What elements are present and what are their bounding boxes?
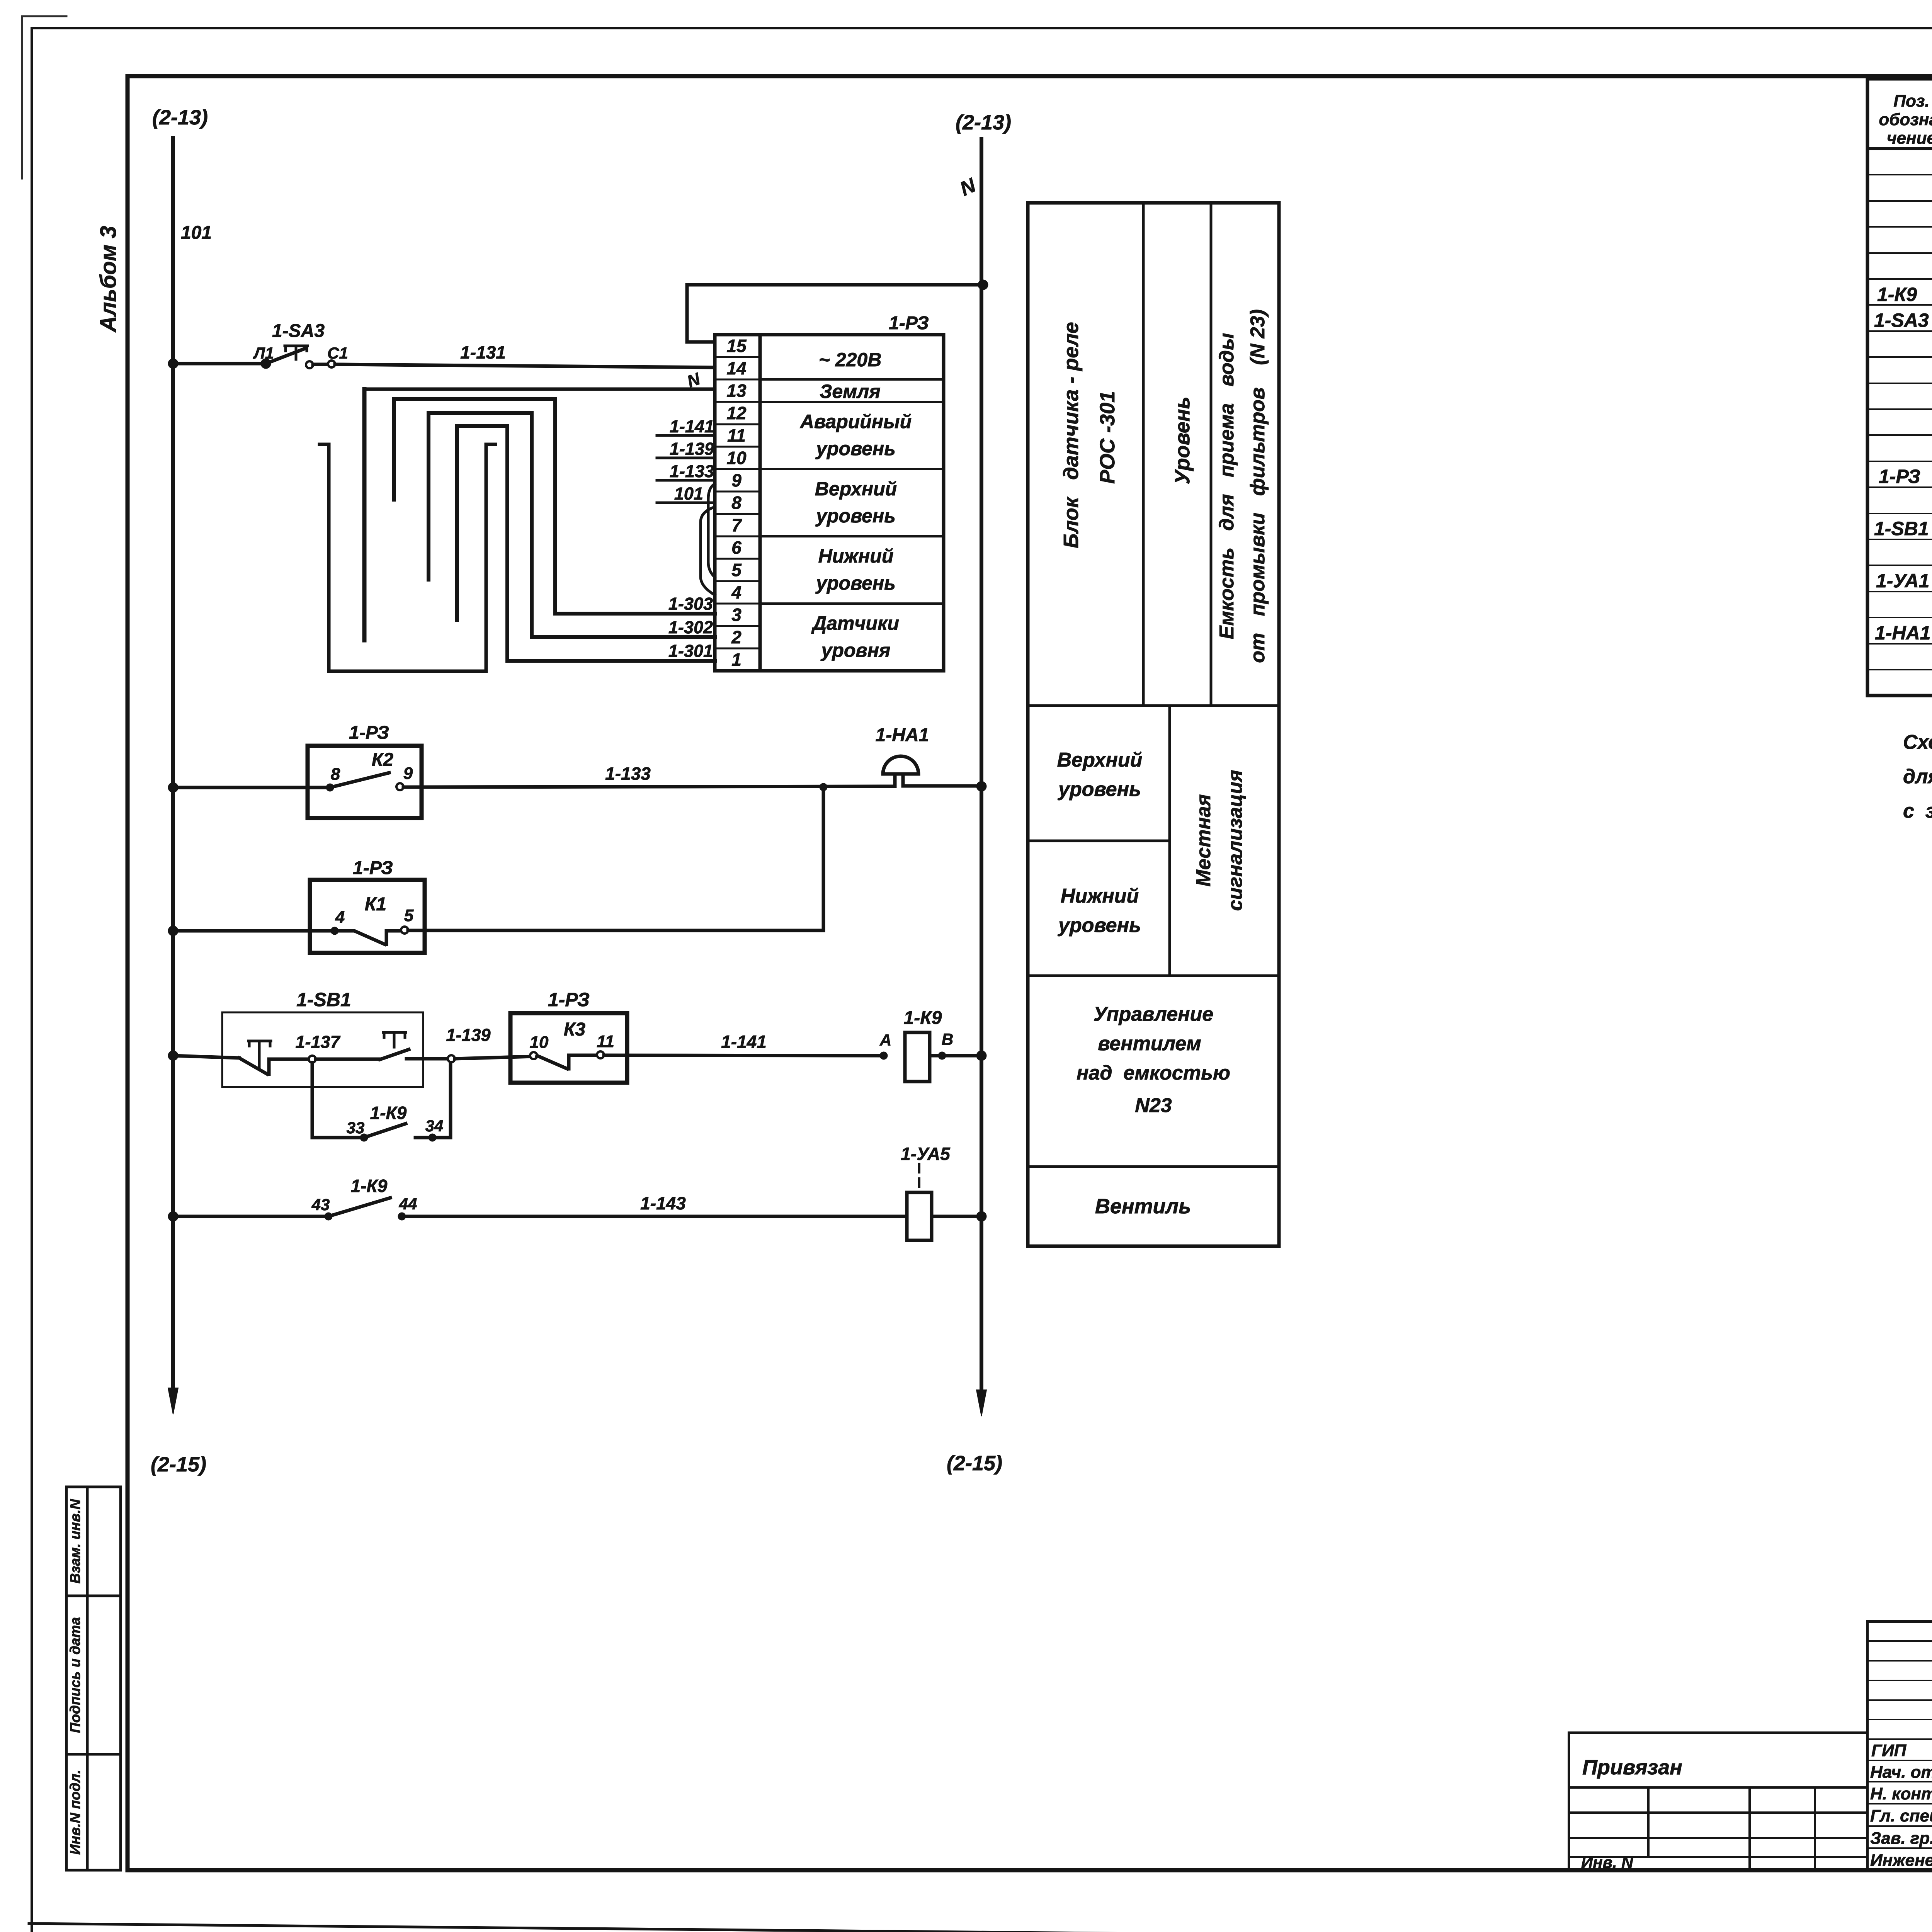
junction dot bell rung on bus N	[976, 781, 986, 791]
wire bus to K1 box	[173, 929, 335, 933]
svg-text:10: 10	[726, 448, 747, 468]
coil 1-УА5	[907, 1192, 932, 1240]
svg-text:1-НА1: 1-НА1	[876, 725, 929, 745]
svg-text:уровень: уровень	[1057, 914, 1141, 937]
contact K1 blade	[335, 931, 402, 944]
switch 1-SA3 terminal Л1	[261, 359, 271, 369]
wire 1-141 K3 to coil K9	[604, 1055, 884, 1056]
bypass wire up to 1-139	[415, 1063, 451, 1138]
svg-text:С1: С1	[327, 344, 348, 362]
parts list row lines	[1867, 175, 1932, 670]
svg-text:34: 34	[425, 1117, 444, 1135]
svg-text:Поз.: Поз.	[1893, 92, 1929, 111]
svg-text:44: 44	[399, 1195, 417, 1213]
svg-text:13: 13	[726, 381, 747, 401]
arrow right bus	[976, 1390, 986, 1416]
svg-text:1-131: 1-131	[460, 342, 506, 362]
junction dot bus L1 / SA3 rung	[168, 359, 178, 369]
wire contact to C1	[313, 363, 328, 366]
wire 1-131 to terminal 14	[335, 364, 715, 367]
svg-text:Местная: Местная	[1192, 794, 1215, 887]
wire 1-143 to coil УА5	[406, 1215, 907, 1218]
svg-text:Схема выполнена для о: Схема выполнена для одной емкости N 23,	[1903, 731, 1932, 753]
svg-text:Нижний: Нижний	[818, 545, 894, 567]
svg-text:1-НА1: 1-НА1	[1875, 622, 1930, 644]
bypass contact blade 1-К9	[364, 1124, 406, 1138]
svg-text:уровня: уровня	[820, 639, 891, 661]
pushbutton NC handle	[248, 1041, 271, 1068]
sensor electrode wire 1-302 to pin 2	[429, 413, 715, 637]
title block signature columns	[1867, 1621, 1932, 1870]
svg-text:9: 9	[731, 470, 742, 490]
svg-text:3: 3	[731, 605, 742, 625]
svg-text:1-РЗ: 1-РЗ	[349, 723, 389, 743]
svg-text:от промывки фильтров (N: от промывки фильтров (N 23)	[1247, 309, 1269, 663]
bus L1 (left vertical, wire 101)	[171, 138, 175, 1391]
svg-text:сигнализация: сигнализация	[1224, 770, 1247, 911]
svg-text:Нач. отд.: Нач. отд.	[1870, 1763, 1932, 1782]
scan bottom edge line	[29, 1923, 1932, 1932]
svg-text:Датчики: Датчики	[811, 612, 899, 634]
svg-text:1-302: 1-302	[668, 617, 713, 637]
terminal strip 1-РЗ numbers column	[715, 335, 760, 671]
svg-text:Верхний: Верхний	[1057, 749, 1143, 771]
svg-text:1-РЗ: 1-РЗ	[1879, 466, 1920, 487]
svg-text:В: В	[942, 1030, 953, 1048]
parts list header bottom	[1867, 147, 1932, 150]
svg-text:4: 4	[335, 908, 345, 927]
svg-text:уровень: уровень	[815, 438, 896, 459]
svg-text:1-К9: 1-К9	[1877, 284, 1917, 305]
svg-text:(2-15): (2-15)	[151, 1453, 206, 1476]
svg-text:Аварийный: Аварийный	[799, 411, 912, 432]
jumper pin8 to pin4	[701, 507, 715, 595]
svg-text:5: 5	[404, 906, 414, 925]
svg-text:Зав. гр.: Зав. гр.	[1870, 1829, 1932, 1848]
junction dot bus L1 / K2 rung	[168, 782, 178, 793]
svg-text:8: 8	[331, 765, 340, 784]
terminal row dividers	[715, 356, 760, 358]
svg-text:Вентиль: Вентиль	[1095, 1195, 1191, 1218]
svg-text:1-SА3: 1-SА3	[1874, 310, 1929, 331]
wire bell to bus N	[903, 784, 979, 788]
svg-text:чение: чение	[1887, 129, 1932, 148]
svg-text:N23: N23	[1135, 1094, 1172, 1117]
stub wire 1-133 to pin 9	[657, 479, 715, 482]
svg-text:РОС -301: РОС -301	[1096, 391, 1119, 484]
svg-text:К2: К2	[372, 750, 394, 770]
tank (vessel) outline	[320, 444, 495, 671]
contact K1 right terminal 5	[401, 927, 408, 934]
svg-text:уровень: уровень	[1057, 778, 1141, 801]
svg-text:1-УА5: 1-УА5	[901, 1144, 951, 1164]
svg-text:101: 101	[674, 484, 703, 503]
svg-text:Альбом 3: Альбом 3	[96, 226, 121, 333]
svg-text:43: 43	[311, 1196, 330, 1214]
coil УА5 right wire	[932, 1215, 979, 1218]
stub wire 1-141 to pin 11	[657, 434, 715, 437]
wire N pin13 to ground electrode	[364, 388, 715, 391]
function table outline	[1028, 203, 1279, 1246]
stub wire 101 to pin 8	[657, 502, 715, 504]
svg-text:1: 1	[731, 650, 742, 670]
junction dot top feed on bus N	[978, 280, 988, 290]
svg-text:1-УА1: 1-УА1	[1876, 570, 1929, 592]
svg-text:10: 10	[530, 1033, 549, 1052]
svg-text:(2-15): (2-15)	[947, 1452, 1002, 1475]
svg-text:Инженер: Инженер	[1870, 1851, 1932, 1870]
svg-text:(2-13): (2-13)	[956, 111, 1011, 134]
svg-text:101: 101	[181, 223, 212, 243]
Привязан block	[1569, 1733, 1866, 1870]
svg-text:9: 9	[403, 764, 413, 783]
svg-text:1-SВ1: 1-SВ1	[1874, 518, 1929, 539]
svg-text:1-141: 1-141	[670, 417, 714, 436]
svg-text:(2-13): (2-13)	[152, 106, 208, 129]
wire top feed from bus N to terminal 15	[687, 285, 983, 342]
contact K2 left terminal 8	[326, 784, 334, 791]
svg-text:N: N	[957, 174, 980, 201]
switch 1-SA3 open contact	[306, 361, 313, 368]
bell 1-НА1	[883, 756, 918, 786]
svg-text:33: 33	[347, 1119, 365, 1137]
coil 1-К9	[905, 1032, 930, 1082]
wire bus to contact 43	[173, 1215, 328, 1218]
title block top border	[1867, 1620, 1932, 1623]
svg-text:Н. контр.: Н. контр.	[1870, 1784, 1932, 1803]
junction circle 1-139	[448, 1055, 455, 1062]
bypass contact 34 terminal	[429, 1134, 436, 1141]
svg-text:уровень: уровень	[815, 505, 896, 527]
wire bus to SB1	[173, 1056, 239, 1058]
svg-text:ГИП: ГИП	[1871, 1741, 1907, 1760]
wire 1-133 to bell	[403, 786, 895, 787]
wire bus to SA3	[173, 362, 264, 366]
svg-text:Гл. спец.: Гл. спец.	[1870, 1806, 1932, 1825]
svg-text:К1: К1	[365, 894, 386, 915]
jumper pin9 to pin5	[708, 484, 715, 577]
svg-text:Подпись и дата: Подпись и дата	[67, 1617, 83, 1733]
relay contact box 1-РЗ (K3)	[510, 1013, 627, 1083]
svg-text:6: 6	[731, 537, 742, 558]
svg-text:1-301: 1-301	[668, 641, 713, 661]
svg-text:1-SA3: 1-SA3	[272, 321, 325, 341]
svg-text:Инв.N подл.: Инв.N подл.	[67, 1770, 83, 1855]
wire bus to K2 box	[173, 786, 330, 789]
ground electrode (Земля)	[362, 389, 367, 640]
terminal group dividers	[760, 379, 944, 604]
coil 1-К9 terminal А	[880, 1052, 888, 1060]
svg-text:над емкостью: над емкостью	[1077, 1062, 1230, 1084]
terminal C1	[328, 361, 335, 367]
junction dot bus L1 / bottom rung	[168, 1211, 178, 1221]
wire K1 to riser	[408, 791, 823, 930]
junction circle 1-137	[309, 1056, 316, 1063]
function table inner borders	[1028, 203, 1279, 1167]
contact K3 left terminal 10	[530, 1052, 537, 1059]
contact K1 left terminal 4	[331, 927, 338, 935]
svg-text:Инв. N: Инв. N	[1581, 1853, 1634, 1871]
coil K9 right wire	[930, 1054, 979, 1058]
coil 1-К9 terminal В	[938, 1052, 946, 1060]
pushbutton NO (start) blade	[380, 1049, 409, 1060]
svg-text:8: 8	[731, 493, 742, 513]
svg-text:Блок датчика - реле: Блок датчика - реле	[1060, 322, 1083, 548]
svg-text:1-133: 1-133	[670, 461, 714, 481]
contact K2 right terminal 9	[396, 783, 403, 790]
wire NO to 1-139 node	[406, 1057, 448, 1061]
svg-text:7: 7	[731, 515, 742, 535]
svg-text:1-143: 1-143	[640, 1193, 686, 1213]
svg-text:Емкость для приема воды: Емкость для приема воды	[1216, 333, 1238, 639]
svg-text:1-К9: 1-К9	[370, 1103, 407, 1123]
svg-text:Управление: Управление	[1094, 1003, 1213, 1026]
contact K3 right terminal 11	[597, 1051, 604, 1058]
svg-text:1-139: 1-139	[670, 439, 714, 459]
control post box 1-SВ1	[222, 1012, 423, 1087]
svg-text:14: 14	[726, 358, 746, 378]
svg-text:1-139: 1-139	[446, 1025, 490, 1045]
svg-text:Верхний: Верхний	[815, 478, 897, 500]
wire to NO button	[316, 1058, 380, 1061]
svg-text:~ 220В: ~ 220В	[819, 349, 882, 371]
relay contact box 1-РЗ (K1)	[310, 880, 425, 953]
junction dot bus L1 / K1 rung	[168, 926, 178, 936]
title block thin upper rows	[1867, 1641, 1932, 1739]
svg-text:1-133: 1-133	[605, 764, 651, 784]
switch 1-SA3 handle	[285, 346, 308, 359]
arrow left bus	[168, 1388, 178, 1414]
terminal strip label box	[760, 335, 944, 671]
bypass branch down from 1-137	[312, 1063, 361, 1138]
parts list table outline	[1867, 79, 1932, 696]
pushbutton NC (stop) blade	[239, 1058, 309, 1074]
svg-text:уровень: уровень	[815, 572, 896, 594]
svg-text:15: 15	[726, 336, 747, 356]
contact K2 blade	[330, 773, 389, 787]
contact 44 terminal	[398, 1213, 406, 1220]
svg-text:5: 5	[731, 560, 742, 580]
svg-text:2: 2	[731, 627, 742, 647]
svg-text:1-К9: 1-К9	[904, 1008, 942, 1028]
svg-text:обозна-: обозна-	[1879, 110, 1932, 129]
svg-text:вентилем: вентилем	[1098, 1032, 1201, 1055]
junction dot K9 rung on bus N	[976, 1051, 986, 1061]
dashed link label to coil	[918, 1164, 920, 1191]
svg-text:Взам. инв.N: Взам. инв.N	[67, 1499, 83, 1584]
svg-text:1-SВ1: 1-SВ1	[296, 989, 351, 1010]
svg-text:1-303: 1-303	[668, 594, 713, 614]
svg-text:1-РЗ: 1-РЗ	[548, 989, 590, 1010]
contact 43 terminal	[325, 1213, 332, 1220]
contact K3 blade	[537, 1055, 597, 1069]
svg-text:1-К9: 1-К9	[351, 1176, 388, 1196]
junction dot wire 1-133 / K1 riser	[820, 783, 827, 791]
svg-text:Уровень: Уровень	[1171, 396, 1194, 484]
bypass contact 33 terminal	[360, 1134, 368, 1141]
svg-text:К3: К3	[564, 1019, 586, 1040]
svg-text:Нижний: Нижний	[1061, 885, 1139, 907]
contact blade 1-К9	[328, 1198, 390, 1216]
sensor electrode wire 1-301 to pin 1	[457, 426, 715, 661]
svg-text:11: 11	[597, 1032, 614, 1051]
svg-text:1-137: 1-137	[295, 1032, 340, 1052]
svg-text:1-141: 1-141	[721, 1032, 767, 1052]
scan corner artifacts top-left	[22, 16, 66, 179]
switch 1-SA3 blade	[266, 348, 306, 364]
svg-text:для другой емкости схе: для другой емкости схема аналогична, но	[1903, 765, 1932, 788]
svg-text:Привязан: Привязан	[1582, 1756, 1682, 1779]
wire 1-139 to K3 box	[455, 1056, 534, 1059]
svg-text:1-РЗ: 1-РЗ	[889, 313, 929, 333]
svg-text:Земля: Земля	[820, 381, 880, 402]
left margin stamp boxes	[66, 1487, 121, 1870]
pushbutton NO handle	[383, 1032, 406, 1047]
svg-text:1-РЗ: 1-РЗ	[353, 858, 393, 878]
bus N (right vertical)	[980, 139, 983, 1393]
svg-text:А: А	[879, 1031, 891, 1049]
svg-text:11: 11	[727, 425, 746, 446]
junction dot bus L1 / SB1 rung	[168, 1051, 178, 1061]
sensor electrode wire 1-303 to pin 3	[394, 399, 715, 614]
svg-text:с заменой индекса „ 1": с заменой индекса „ 1" на „ 2".	[1903, 800, 1932, 822]
title block name rows	[1867, 1760, 1932, 1848]
svg-text:Л1: Л1	[253, 344, 274, 362]
stub wire 1-139 to pin 10	[657, 457, 715, 459]
svg-text:12: 12	[726, 403, 747, 423]
junction dot УА5 rung on bus N	[976, 1211, 986, 1221]
svg-text:4: 4	[731, 582, 742, 602]
relay contact box 1-РЗ (K2)	[308, 746, 422, 818]
